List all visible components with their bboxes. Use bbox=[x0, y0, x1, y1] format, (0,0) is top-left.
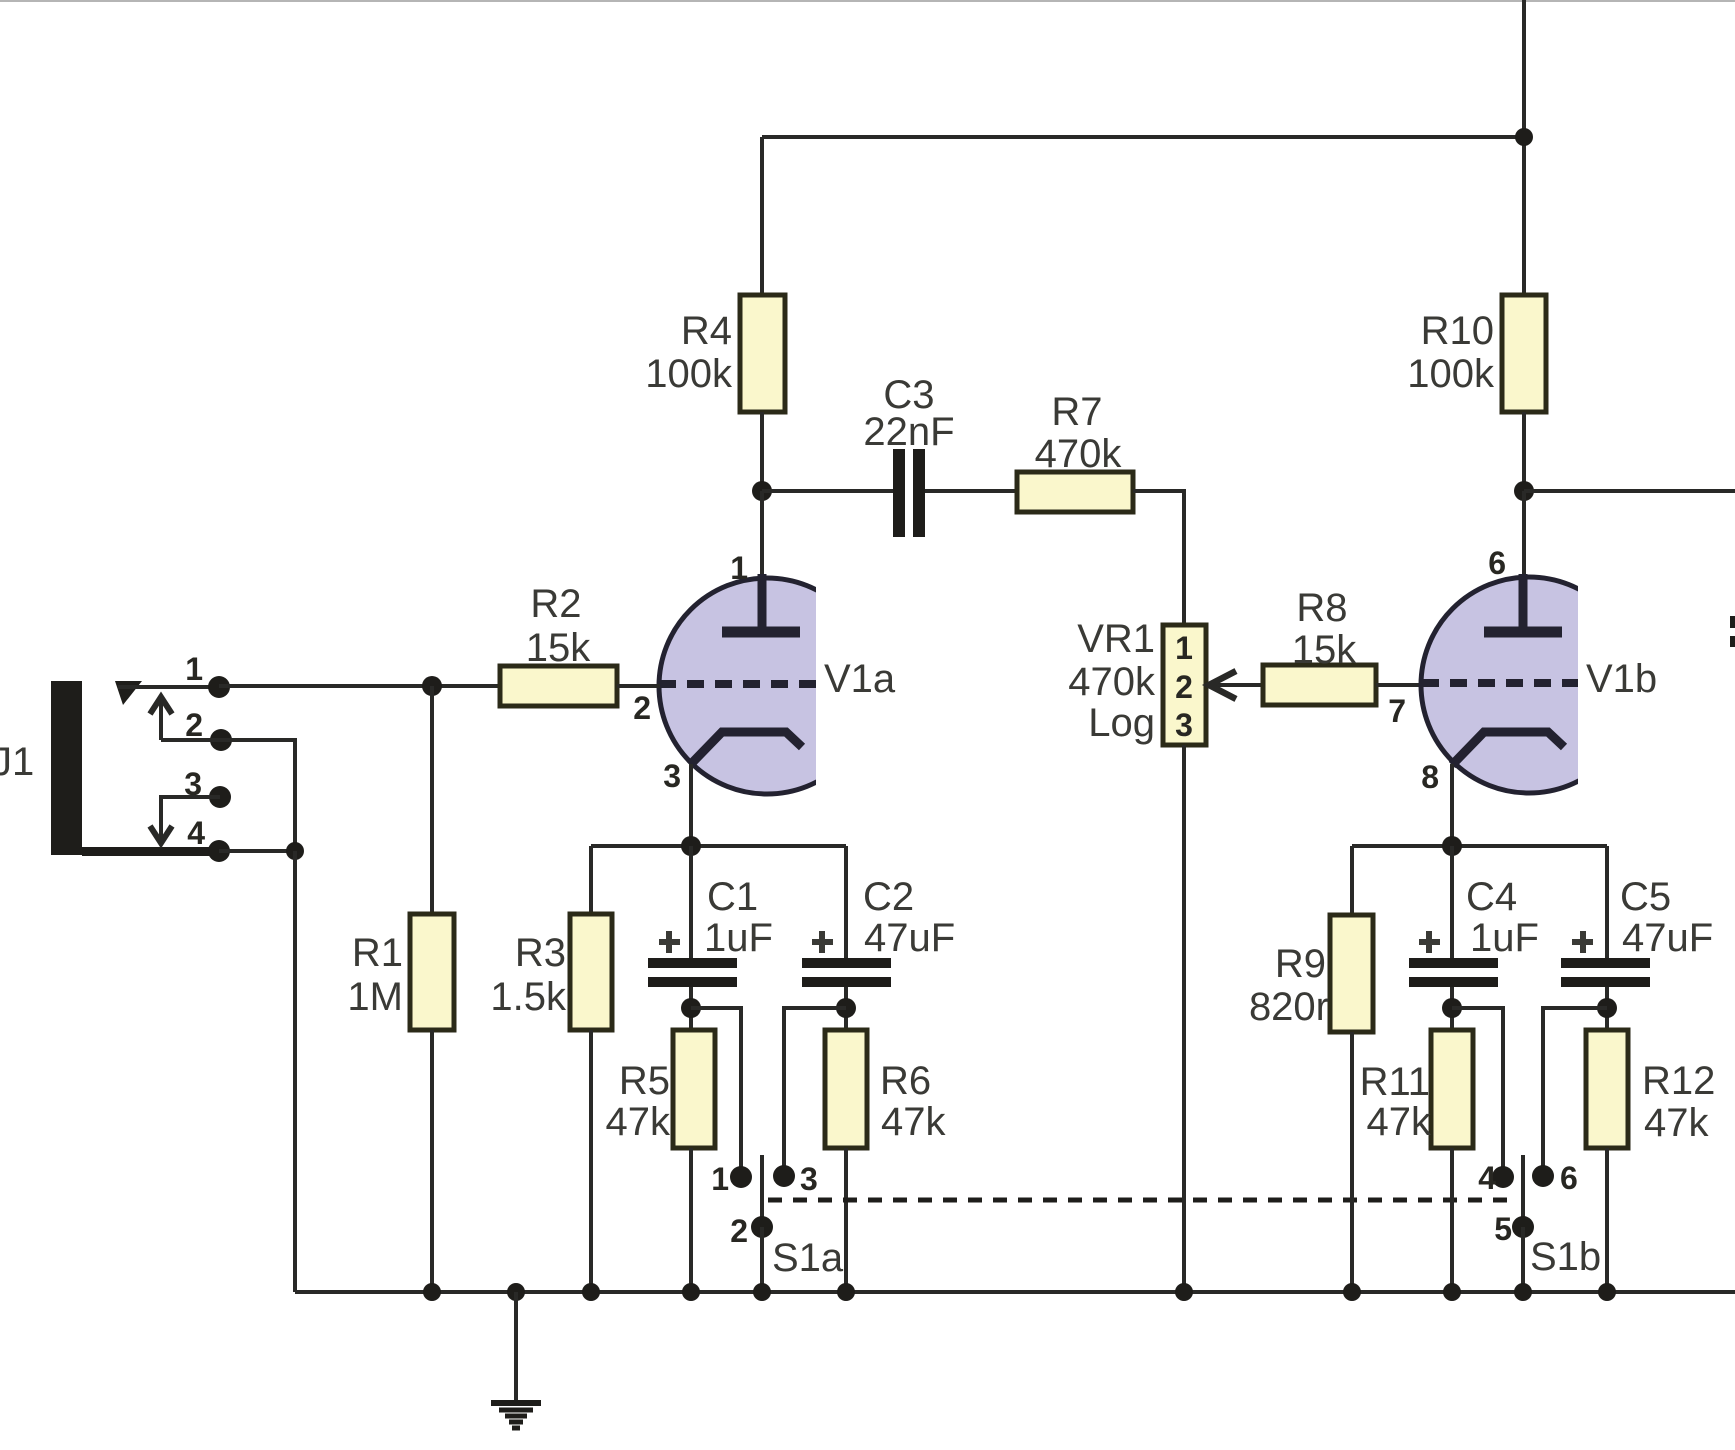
wire R6 bottom bbox=[844, 1148, 848, 1292]
wire C3 to R7 bbox=[925, 489, 1017, 493]
svg-text:6: 6 bbox=[1560, 1160, 1578, 1196]
wire C2 junction to S1a contact 3 bbox=[784, 1008, 846, 1170]
svg-text:R4: R4 bbox=[681, 309, 732, 353]
svg-text:2: 2 bbox=[730, 1213, 748, 1249]
wire R8 to V1b grid bbox=[1376, 683, 1422, 687]
node bus S1b bbox=[1514, 1283, 1532, 1301]
wire R9 stem bbox=[1350, 846, 1354, 915]
node bus ground bbox=[507, 1283, 525, 1301]
capacitor C3 22nF bbox=[863, 373, 954, 537]
svg-text:R7: R7 bbox=[1051, 390, 1102, 434]
wire C5 bottom bbox=[1605, 987, 1609, 1030]
svg-text:R9: R9 bbox=[1275, 942, 1326, 986]
node C1/R5 junction bbox=[681, 998, 701, 1018]
svg-text:C5: C5 bbox=[1620, 875, 1671, 919]
svg-text:R1: R1 bbox=[352, 931, 403, 975]
wire HT supply vertical bbox=[1522, 0, 1526, 297]
svg-text:1: 1 bbox=[730, 550, 748, 586]
wire R5 bottom bbox=[689, 1148, 693, 1292]
wire C1 junction to S1a contact 1 bbox=[691, 1008, 741, 1170]
svg-text:3: 3 bbox=[1175, 707, 1193, 743]
node J1 pin 3 bbox=[209, 786, 231, 808]
svg-text:1M: 1M bbox=[347, 975, 403, 1019]
svg-text:VR1: VR1 bbox=[1077, 617, 1155, 661]
wire R1 bottom bbox=[430, 1030, 434, 1292]
svg-text:1: 1 bbox=[711, 1161, 729, 1197]
node R1 tap bbox=[422, 676, 442, 696]
svg-text:100k: 100k bbox=[645, 352, 733, 396]
potentiometer VR1 470k Log bbox=[1068, 617, 1206, 745]
svg-text:47k: 47k bbox=[606, 1100, 671, 1144]
svg-text:15k: 15k bbox=[526, 626, 591, 670]
node J1 ground junction bbox=[286, 842, 304, 860]
resistor R4 bbox=[740, 295, 785, 412]
node C4/R11 junction bbox=[1442, 998, 1462, 1018]
switch S1b bbox=[1478, 1155, 1601, 1279]
svg-text:47uF: 47uF bbox=[864, 916, 955, 960]
svg-text:R10: R10 bbox=[1421, 309, 1494, 353]
wire J1 down to bus bbox=[293, 851, 297, 1292]
svg-text:8: 8 bbox=[1421, 759, 1439, 795]
wire C2 bottom bbox=[844, 987, 848, 1030]
node bus R5 bbox=[682, 1283, 700, 1301]
node bus S1a bbox=[753, 1283, 771, 1301]
svg-text:47uF: 47uF bbox=[1622, 916, 1713, 960]
svg-text:820r: 820r bbox=[1249, 985, 1329, 1029]
node cathode junction right bbox=[1442, 836, 1462, 856]
node C5/R12 junction bbox=[1597, 998, 1617, 1018]
node bus R12 bbox=[1598, 1283, 1616, 1301]
resistor R10 bbox=[1407, 295, 1546, 412]
right edge cut marks bbox=[1730, 616, 1735, 628]
wire J1 NC arrow up bbox=[150, 697, 172, 740]
node top rail junction bbox=[1515, 128, 1533, 146]
svg-text:22nF: 22nF bbox=[863, 410, 954, 454]
wire C2 stem bbox=[844, 846, 848, 959]
svg-text:C1: C1 bbox=[707, 875, 758, 919]
wire C4 stem bbox=[1450, 846, 1454, 959]
wire top rail horizontal bbox=[762, 135, 1524, 139]
node bus R6 bbox=[837, 1283, 855, 1301]
capacitor C5 47uF bbox=[1561, 875, 1713, 987]
svg-text:R2: R2 bbox=[530, 582, 581, 626]
wire R4 to anode node bbox=[760, 412, 764, 491]
node bus R1 bbox=[423, 1283, 441, 1301]
resistor R12 bbox=[1586, 1030, 1715, 1148]
resistor R6 bbox=[825, 1030, 946, 1148]
wire R12 bottom bbox=[1605, 1148, 1609, 1292]
wire J1 pin 3 arrow down bbox=[150, 797, 220, 843]
capacitor C1 1uF bbox=[648, 875, 773, 987]
wire R4 stem bbox=[760, 137, 764, 297]
svg-text:470k: 470k bbox=[1068, 660, 1156, 704]
svg-text:47k: 47k bbox=[881, 1100, 946, 1144]
svg-text:V1a: V1a bbox=[824, 657, 896, 701]
wire anode node to V1a pin 1 bbox=[760, 491, 764, 580]
node V1a anode junction bbox=[752, 481, 772, 501]
jack J1 bbox=[0, 651, 221, 856]
node bus R11 bbox=[1443, 1283, 1461, 1301]
wire R1 top bbox=[430, 686, 434, 914]
wire cathode rail left bbox=[591, 844, 846, 848]
node C2/R6 junction bbox=[836, 998, 856, 1018]
capacitor C4 1uF bbox=[1409, 875, 1539, 987]
svg-text:S1a: S1a bbox=[772, 1236, 844, 1280]
svg-text:1uF: 1uF bbox=[1470, 916, 1539, 960]
svg-text:1uF: 1uF bbox=[704, 916, 773, 960]
svg-text:R12: R12 bbox=[1642, 1059, 1715, 1103]
wire C1 stem bbox=[689, 846, 693, 959]
node bus R3 bbox=[582, 1283, 600, 1301]
wire J1 pin 4 bbox=[219, 849, 295, 853]
wire output to right edge bbox=[1524, 489, 1735, 493]
node J1 pin 4 bbox=[208, 840, 230, 862]
ground symbol bbox=[491, 1292, 541, 1428]
node J1 pin 1 bbox=[208, 676, 230, 698]
svg-text:2: 2 bbox=[185, 707, 203, 743]
svg-text:J1: J1 bbox=[0, 740, 34, 784]
wire VR1 bottom to ground bus bbox=[1182, 745, 1186, 1292]
svg-text:S1b: S1b bbox=[1530, 1235, 1601, 1279]
svg-text:Log: Log bbox=[1088, 701, 1155, 745]
switch S1a bbox=[711, 1155, 844, 1280]
wire R2 to V1a grid bbox=[617, 684, 660, 688]
resistor R11 bbox=[1360, 1030, 1473, 1148]
svg-text:3: 3 bbox=[663, 758, 681, 794]
svg-text:R3: R3 bbox=[515, 931, 566, 975]
top border line bbox=[0, 0, 1735, 2]
svg-text:1: 1 bbox=[185, 651, 203, 687]
svg-text:C4: C4 bbox=[1466, 875, 1517, 919]
wire R11 bottom bbox=[1450, 1148, 1454, 1292]
resistor R9 bbox=[1249, 915, 1373, 1032]
wire switch gang dashed link bbox=[768, 1198, 1516, 1203]
wire C1 bottom bbox=[689, 987, 693, 1030]
node J1 pin 2 bbox=[210, 729, 232, 751]
svg-text:1.5k: 1.5k bbox=[490, 975, 567, 1019]
triode V1b bbox=[1421, 545, 1657, 795]
wire C5 junction to S1b contact 6 bbox=[1543, 1008, 1607, 1170]
wire C5 stem bbox=[1605, 846, 1609, 959]
wire S1a common to bus bbox=[760, 1227, 764, 1292]
svg-text:2: 2 bbox=[1175, 669, 1193, 705]
wire V1b cathode down bbox=[1450, 764, 1454, 846]
svg-text:7: 7 bbox=[1388, 693, 1406, 729]
node output junction bbox=[1514, 481, 1534, 501]
svg-text:5: 5 bbox=[1494, 1211, 1512, 1247]
node bus R9 bbox=[1343, 1283, 1361, 1301]
wire V1a cathode down bbox=[689, 764, 693, 846]
wire J1 pin 2 bbox=[161, 740, 295, 851]
node bus VR1 bbox=[1175, 1283, 1193, 1301]
svg-text:R5: R5 bbox=[619, 1059, 670, 1103]
svg-text:6: 6 bbox=[1488, 545, 1506, 581]
wire input to R2 bbox=[219, 684, 500, 688]
node cathode junction left bbox=[681, 836, 701, 856]
wire output node to V1b pin 6 bbox=[1522, 491, 1526, 580]
wire VR1 wiper arrow bbox=[1209, 671, 1263, 699]
wire R3 bottom bbox=[589, 1030, 593, 1292]
triode V1a bbox=[633, 550, 896, 794]
wire ground bus bbox=[295, 1290, 1735, 1294]
capacitor C2 47uF bbox=[802, 875, 955, 987]
svg-text:R11: R11 bbox=[1360, 1060, 1430, 1104]
wire S1b common to bus bbox=[1521, 1227, 1525, 1292]
wire C4 bottom bbox=[1450, 987, 1454, 1030]
svg-text:C2: C2 bbox=[863, 875, 914, 919]
wire R3 stem bbox=[589, 846, 593, 914]
svg-text:47k: 47k bbox=[1644, 1101, 1709, 1145]
svg-text:470k: 470k bbox=[1035, 432, 1123, 476]
svg-text:4: 4 bbox=[187, 815, 205, 851]
svg-text:3: 3 bbox=[800, 1161, 818, 1197]
resistor R1 bbox=[347, 914, 454, 1030]
wire R9 bottom bbox=[1350, 1032, 1354, 1292]
svg-text:R8: R8 bbox=[1296, 586, 1347, 630]
svg-text:47k: 47k bbox=[1367, 1100, 1432, 1144]
svg-text:4: 4 bbox=[1478, 1160, 1496, 1196]
resistor R2 bbox=[500, 582, 617, 706]
wire R10 to output node bbox=[1522, 412, 1526, 491]
wire C4 junction to S1b contact 4 bbox=[1452, 1008, 1503, 1170]
svg-text:1: 1 bbox=[1175, 630, 1193, 666]
svg-text:R6: R6 bbox=[880, 1059, 931, 1103]
wire R7 to VR1 top bbox=[1133, 491, 1184, 625]
svg-text:2: 2 bbox=[633, 690, 651, 726]
resistor R7 bbox=[1017, 390, 1133, 512]
resistor R8 bbox=[1263, 586, 1376, 705]
svg-text:15k: 15k bbox=[1292, 628, 1357, 672]
svg-text:100k: 100k bbox=[1407, 352, 1495, 396]
resistor R5 bbox=[606, 1030, 716, 1148]
wire anode node to C3 bbox=[762, 489, 893, 493]
svg-text:V1b: V1b bbox=[1586, 657, 1657, 701]
wire cathode rail right bbox=[1352, 844, 1607, 848]
resistor R3 bbox=[490, 914, 612, 1030]
